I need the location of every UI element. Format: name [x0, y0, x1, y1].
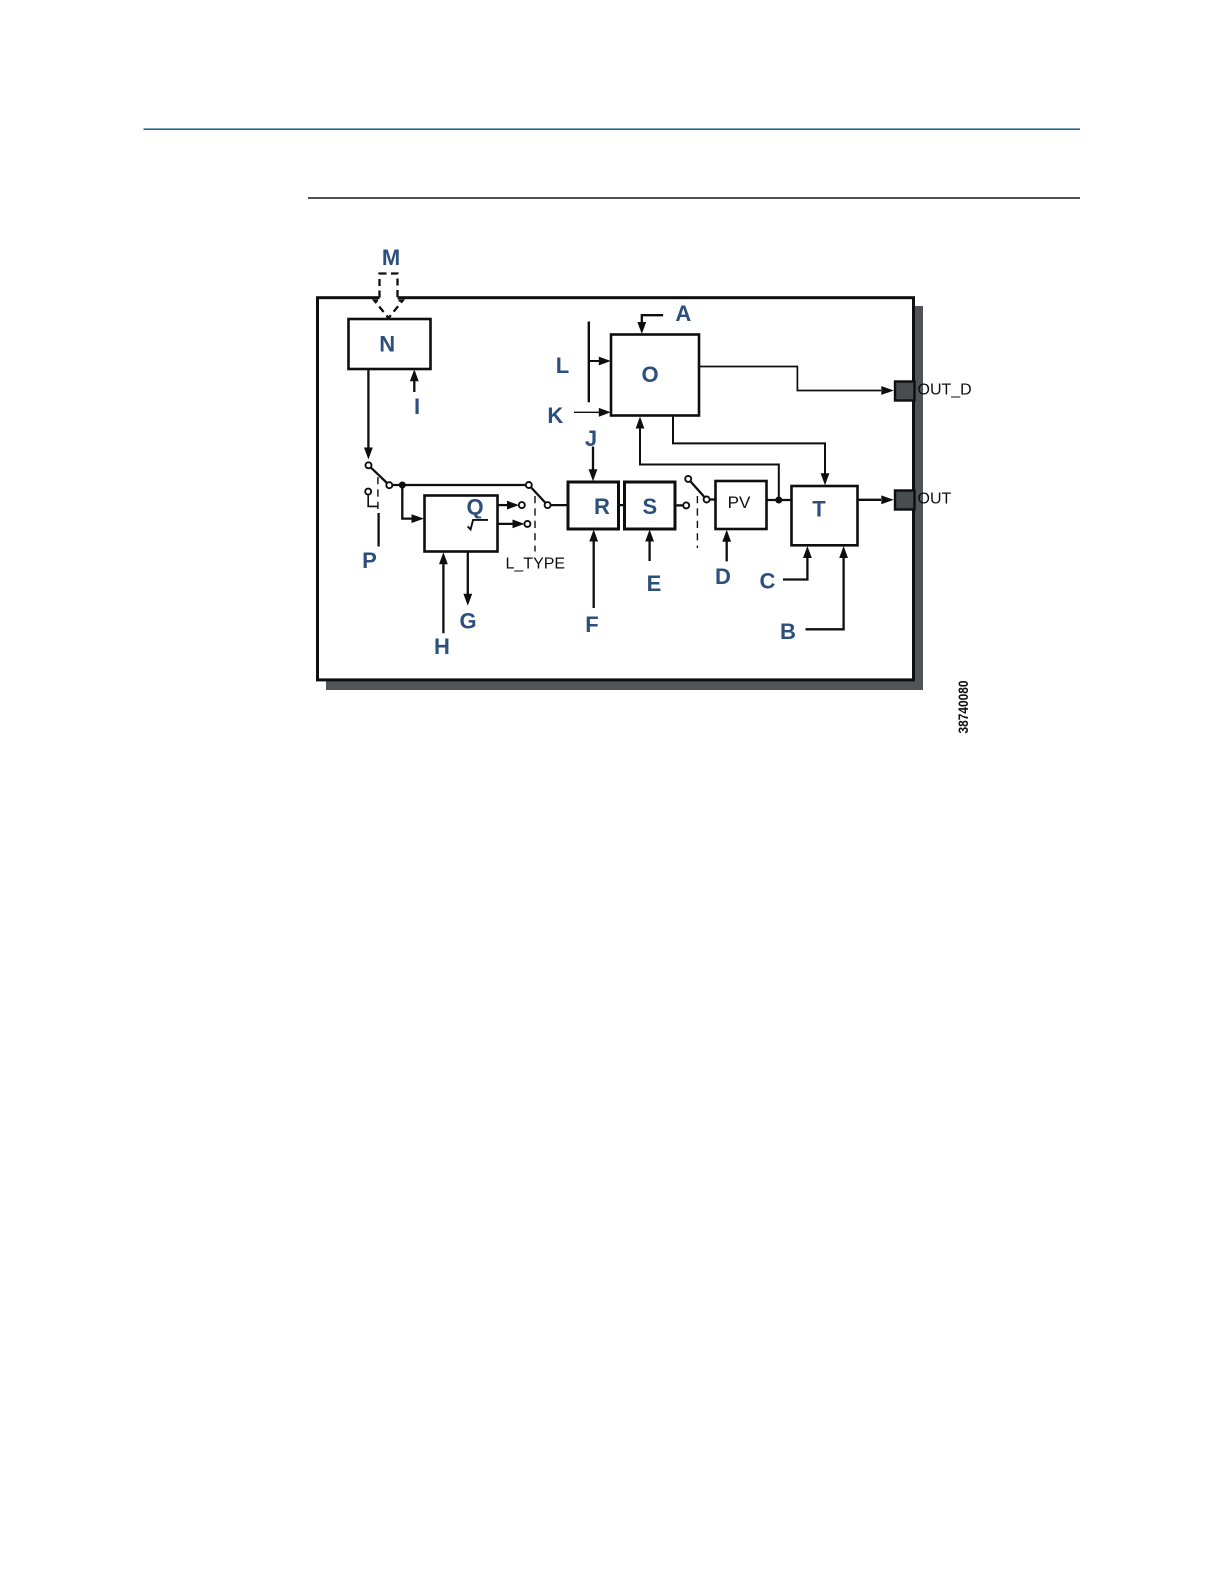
svg-text:T: T [812, 497, 826, 522]
contact: N switch upper [366, 462, 372, 468]
svg-text:Q: Q [466, 495, 483, 520]
wire: P stem [377, 513, 379, 547]
svg-text:N: N [379, 332, 395, 357]
contact: PV switch open [685, 476, 691, 482]
svg-text:D: D [715, 564, 731, 589]
dashed L_TYPE selector [534, 496, 536, 552]
arrow D into PV [726, 541, 728, 561]
wire: L_TYPE switch blade [529, 485, 548, 505]
dashed PV selector [696, 496, 698, 548]
wire: PV to T [767, 499, 792, 501]
contact: Q sqrt output [524, 521, 530, 527]
wire: pole to PV [707, 498, 716, 500]
contact: S output [683, 502, 689, 508]
contact: P control [365, 489, 371, 495]
diagram outer frame [318, 298, 914, 680]
svg-text:OUT: OUT [918, 491, 952, 508]
sqrt symbol in Q [468, 520, 488, 530]
arrow I into N [413, 380, 415, 392]
arrow J into R [592, 447, 594, 471]
svg-text:R: R [594, 494, 610, 519]
svg-text:B: B [780, 619, 796, 644]
arrow B into T [806, 557, 844, 629]
wire: N drop to switch [367, 369, 369, 450]
section rule (black) [308, 197, 1080, 199]
svg-text:M: M [382, 245, 400, 270]
wire: P contact elbow [368, 495, 377, 507]
svg-text:L: L [556, 353, 569, 378]
arrow G out of Q [467, 552, 469, 595]
svg-text:C: C [760, 568, 776, 593]
arrow F into R [593, 541, 595, 608]
block PV [716, 481, 767, 529]
svg-text:L_TYPE: L_TYPE [506, 556, 566, 573]
contact: PV switch pole [704, 497, 710, 503]
arrow L into O [590, 360, 600, 362]
svg-text:PV: PV [728, 493, 751, 512]
contact: L_TYPE direct [526, 482, 532, 488]
svg-text:O: O [641, 362, 658, 387]
svg-text:F: F [585, 612, 598, 637]
svg-text:A: A [675, 301, 691, 326]
wire: T output to OUT [858, 499, 882, 501]
svg-text:OUT_D: OUT_D [918, 382, 972, 399]
feedback: junction up into O bottom [640, 427, 779, 500]
svg-text:I: I [414, 394, 420, 419]
contact: N switch pole [386, 482, 392, 488]
svg-text:S: S [642, 494, 657, 519]
arrow A into O [642, 315, 663, 323]
arrow H into Q [442, 563, 444, 633]
contact: L_TYPE pole [545, 502, 551, 508]
svg-text:E: E [647, 571, 662, 596]
block Q [425, 496, 498, 552]
arrow E into S [648, 541, 650, 561]
wire: feed into Q [402, 485, 412, 519]
block N [349, 319, 431, 369]
dashed link P to blade [377, 477, 379, 511]
junction: PV-T node [775, 497, 782, 504]
header rule (teal) [144, 128, 1081, 130]
svg-text:P: P [362, 548, 377, 573]
wire: switch blade (left) [369, 465, 390, 485]
wire: Q top output [498, 504, 510, 506]
wire: PV switch blade [688, 479, 706, 500]
port OUT_D [895, 382, 915, 401]
svg-text:J: J [585, 426, 597, 451]
wire: Q sqrt output [498, 523, 515, 525]
svg-text:K: K [547, 403, 563, 428]
port OUT [895, 491, 915, 510]
block O [611, 335, 699, 416]
L bracket bar [588, 322, 590, 403]
diagram drop shadow [326, 306, 923, 690]
block T [792, 486, 858, 545]
block R [568, 482, 619, 529]
dashed hollow arrow M into N [374, 274, 402, 319]
wire: pole to R [548, 504, 568, 506]
block S [625, 482, 676, 529]
svg-text:H: H [434, 634, 450, 659]
arrow C into T [783, 557, 807, 580]
wire: O output to OUT_D [699, 367, 881, 391]
svg-text:38740080: 38740080 [955, 680, 971, 733]
feedback: O bottom to T top [673, 416, 825, 474]
wire: main line to L_TYPE switch [389, 484, 529, 486]
arrow K into O [574, 411, 600, 413]
junction: main line node [399, 482, 406, 489]
wire: R-S link [619, 504, 625, 506]
contact: Q direct output [519, 502, 525, 508]
svg-text:G: G [459, 608, 476, 633]
wire: S output [675, 504, 686, 506]
